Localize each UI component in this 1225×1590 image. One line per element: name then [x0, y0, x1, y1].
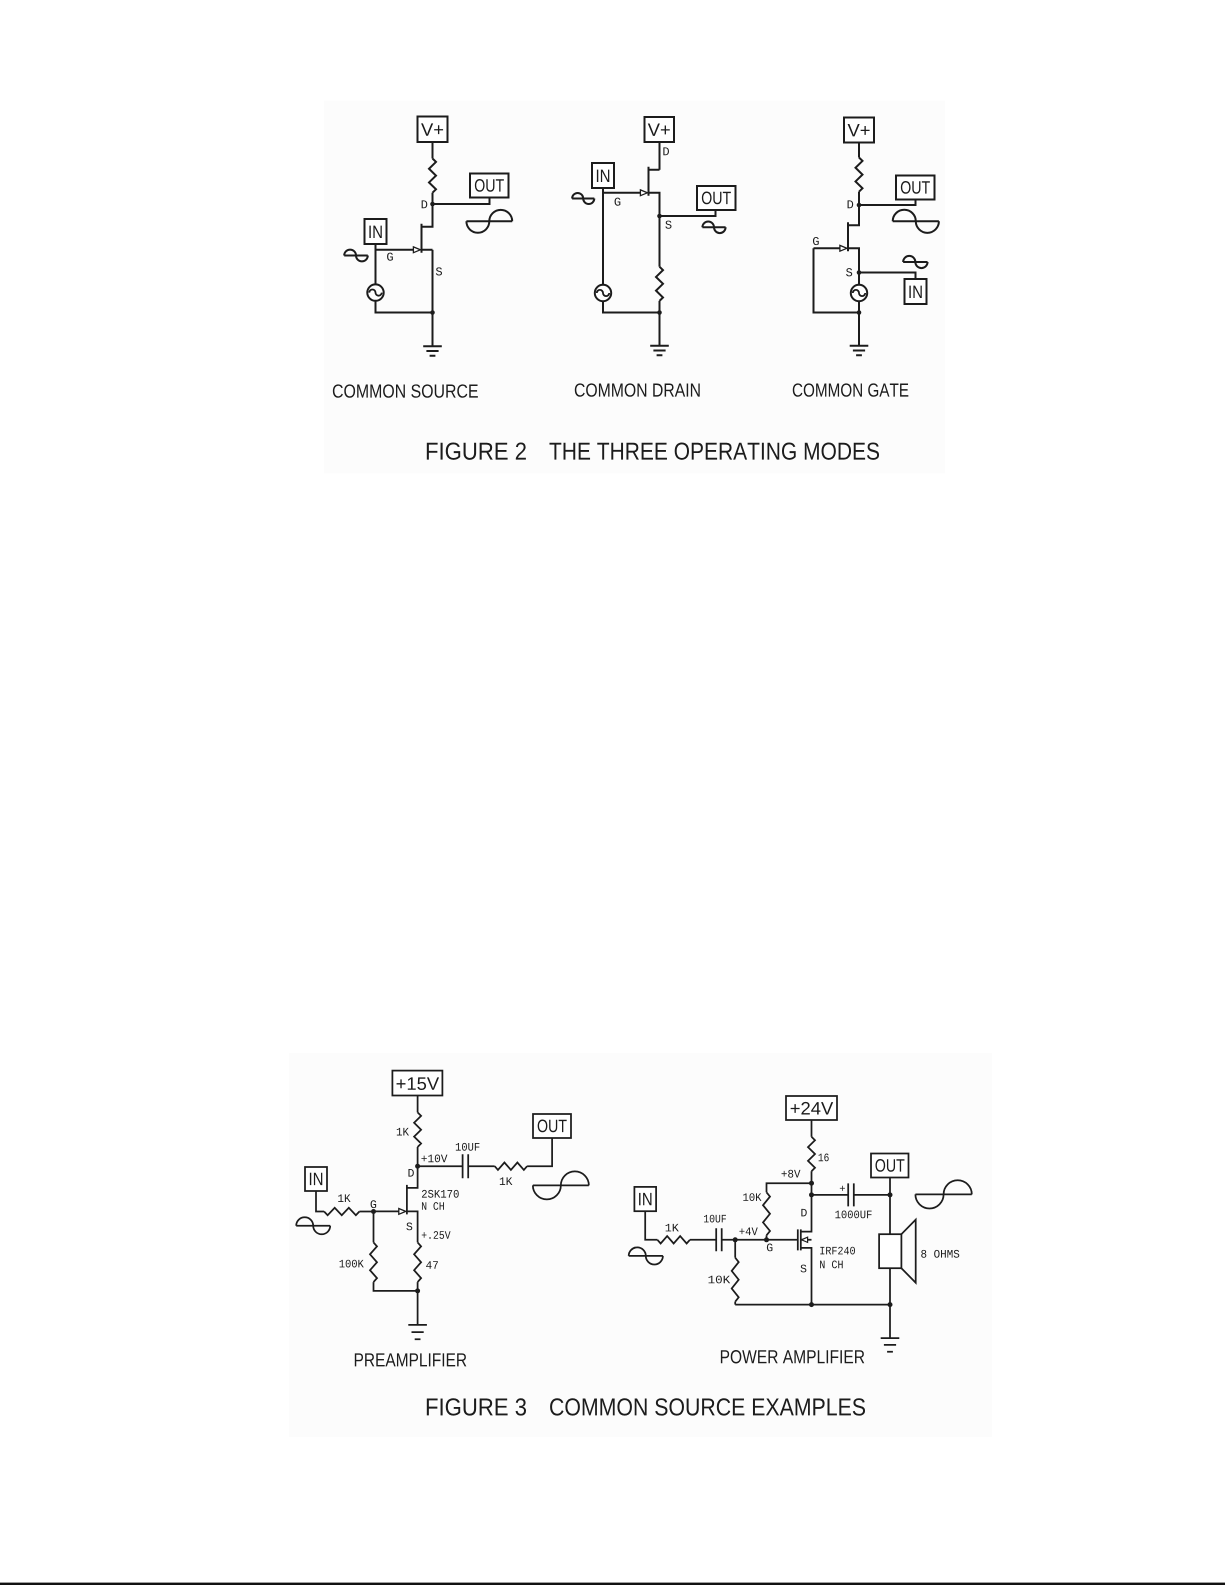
wire generator to ground rail (common gate): [858, 301, 860, 313]
wire junction to ground (common source): [432, 313, 434, 347]
wire junction to ground (preamplifier): [417, 1291, 419, 1325]
part label N CH (preamplifier): [422, 1202, 444, 1210]
value label 100K (preamplifier): [340, 1260, 364, 1268]
output waveform sine (common drain): [702, 222, 725, 234]
output waveform sine (preamplifier, inverted): [533, 1171, 589, 1199]
voltage label +10V (preamplifier): [421, 1155, 447, 1163]
input waveform sine (common gate): [903, 256, 927, 268]
node G junction dot (power amplifier): [764, 1237, 769, 1242]
ground rail junction dot (preamplifier): [415, 1288, 420, 1293]
caption COMMON DRAIN: [575, 383, 700, 396]
pin label D (common gate): [848, 200, 854, 208]
wire resistor to ground rail (common drain): [659, 301, 661, 313]
wire V+ to drain resistor (common gate): [858, 143, 860, 158]
node D junction dot (power amplifier): [809, 1192, 814, 1197]
ground symbol (power amplifier): [881, 1338, 900, 1352]
pin label S (preamplifier): [406, 1223, 412, 1231]
wire node D to capacitor (preamplifier): [418, 1165, 463, 1167]
wire generator to IN (common drain): [602, 188, 604, 285]
wire resistor to node G (preamplifier): [359, 1211, 373, 1213]
input port box IN (common source): [365, 219, 387, 244]
part label IRF240 (power amplifier): [820, 1247, 855, 1255]
caption COMMON SOURCE: [333, 384, 478, 397]
wire 100K to ground rail (preamplifier): [374, 1282, 418, 1291]
wire junction to ground (common drain): [659, 313, 661, 346]
wire IN to resistor 1K (power amplifier): [645, 1211, 657, 1240]
transistor IRF240 N-MOSFET (power amplifier): [767, 1195, 812, 1305]
input waveform sine (power amplifier): [629, 1247, 663, 1264]
wire speaker to ground rail (power amplifier): [889, 1268, 891, 1304]
value label 1000UF (power amplifier): [835, 1211, 871, 1219]
resistor RD (common gate drain resistor): [856, 158, 863, 192]
capacitor 10UF (preamplifier): [463, 1154, 469, 1178]
wire node D to capacitor 1000UF: [812, 1194, 849, 1196]
source junction dot on ground rail (power amplifier): [809, 1302, 814, 1307]
value label 1K drain (preamplifier): [397, 1128, 409, 1136]
transistor 2SK170 N-JFET (preamplifier): [374, 1166, 418, 1242]
wire capacitor to node OUT (power amplifier): [854, 1194, 890, 1196]
ground junction dot (power amplifier): [888, 1302, 893, 1307]
output waveform sine (common gate): [893, 210, 939, 233]
resistor 1K drain (preamplifier): [414, 1112, 421, 1147]
figure 3 panel background: [289, 1053, 992, 1437]
pin label S (common gate): [846, 268, 852, 276]
pin label G (preamplifier): [371, 1200, 377, 1208]
value label 10K lower (power amplifier): [709, 1276, 731, 1284]
wire resistor to node D (common gate): [858, 192, 860, 205]
wire OUT box to node OUT (power amplifier): [889, 1178, 891, 1195]
resistor 1K input (power amplifier): [657, 1236, 690, 1243]
pin label G (common drain): [615, 198, 621, 206]
output port box OUT (common drain): [697, 186, 736, 210]
output port box OUT (power amplifier): [871, 1154, 909, 1178]
wire V+ to drain resistor: [432, 142, 434, 159]
power rail box +24V (power amplifier): [786, 1096, 837, 1120]
value label 8 OHMS (power amplifier): [921, 1250, 959, 1258]
wire IN to resistor 1K input (preamplifier): [316, 1191, 324, 1212]
output waveform sine (power amplifier, inverted): [915, 1180, 971, 1208]
capacitor 1000UF (power amplifier): [848, 1183, 854, 1206]
page footer rule: [0, 1583, 1225, 1585]
wire ground rail to ground (power amplifier): [889, 1305, 891, 1338]
wire node D to OUT: [433, 198, 490, 205]
ground rail junction dot (common drain): [657, 310, 662, 315]
wire node G to resistor 100K (preamplifier): [373, 1212, 375, 1243]
caption COMMON GATE: [793, 383, 909, 396]
pin label S (power amplifier): [800, 1265, 806, 1273]
wire node +4V to resistor 10K lower: [734, 1240, 736, 1258]
wire node OUT to speaker (power amplifier): [889, 1195, 891, 1234]
node D junction dot (common gate): [857, 203, 862, 208]
ground symbol (preamplifier): [408, 1325, 427, 1339]
wire node S to IN (common gate): [859, 273, 916, 280]
wire IN to source generator: [375, 244, 377, 285]
input port box IN (common drain): [592, 163, 614, 188]
value label 10UF (power amplifier): [704, 1215, 726, 1223]
resistor 1K input (preamplifier): [324, 1208, 359, 1215]
transistor Q2 N-JFET (common drain): [603, 167, 660, 216]
wire ground rail to generator (common drain): [603, 301, 660, 313]
ground rail junction dot (common gate): [857, 310, 862, 315]
wire +24V to resistor 16: [811, 1120, 813, 1137]
figure 2 title: [427, 442, 879, 459]
AC signal source V1 (common source): [367, 284, 383, 300]
pin label D (power amplifier): [801, 1209, 806, 1217]
wire resistor 16 to node +8V: [811, 1171, 813, 1183]
wire resistor to node D: [432, 193, 434, 204]
output port box OUT (common gate): [896, 176, 935, 200]
input port box IN (common gate): [905, 279, 927, 304]
input port box IN (preamplifier): [305, 1167, 327, 1191]
power rail box +15V (preamplifier): [392, 1071, 442, 1096]
pin label G (power amplifier): [767, 1244, 773, 1252]
input port box IN (power amplifier): [634, 1187, 656, 1211]
output port box OUT (common source): [470, 174, 509, 198]
pin label G (common source): [387, 253, 393, 261]
resistor RS (common drain source resistor): [656, 267, 663, 301]
wire generator to ground rail (common source): [376, 301, 433, 313]
output port box OUT (preamplifier): [533, 1114, 571, 1138]
wire resistor to OUT (preamplifier): [527, 1138, 552, 1166]
voltage label +8V (power amplifier): [782, 1170, 801, 1178]
value label 1K output (preamplifier): [500, 1177, 513, 1185]
value label 1K input (preamplifier): [338, 1194, 350, 1202]
capacitor 10UF (power amplifier): [716, 1228, 722, 1251]
ground rail junction dot (common source): [430, 310, 435, 315]
resistor RD (common source drain resistor): [429, 159, 436, 193]
input waveform sine (common drain): [572, 193, 594, 204]
transistor Q3 N-JFET (common gate): [814, 205, 860, 273]
node D junction dot (common source): [430, 202, 435, 207]
wire capacitor 10UF to node G (power amplifier): [722, 1239, 767, 1241]
value label 16 (power amplifier): [819, 1154, 829, 1162]
resistor 47 source (preamplifier): [414, 1242, 421, 1282]
AC signal source V2 (common drain): [595, 285, 611, 301]
ground symbol (common drain): [650, 346, 669, 355]
figure 3 title: [427, 1398, 865, 1415]
wire node +8V to node D (power amplifier): [811, 1183, 813, 1195]
node D junction dot (preamplifier): [415, 1164, 420, 1169]
input waveform sine (common source): [344, 250, 368, 262]
wire node S to OUT: [660, 210, 716, 216]
caption POWER AMPLIFIER: [721, 1350, 864, 1363]
output waveform sine (common source, inverted): [466, 210, 512, 233]
AC signal source V3 (common gate): [851, 285, 867, 301]
caption PREAMPLIFIER: [355, 1353, 467, 1366]
node G junction dot (preamplifier): [371, 1209, 376, 1214]
voltage label +4V (power amplifier): [739, 1228, 757, 1236]
node +8V junction dot (power amplifier): [809, 1181, 814, 1186]
part label N CH (power amplifier): [820, 1261, 843, 1269]
pin label D (preamplifier): [408, 1169, 413, 1177]
wire capacitor to resistor 1K out (preamplifier): [468, 1165, 495, 1167]
wire V+ to drain: [659, 142, 661, 170]
value label 10K upper (power amplifier): [743, 1193, 761, 1201]
resistor 100K gate bias (preamplifier): [370, 1242, 377, 1282]
resistor 10K lower bias (power amplifier): [732, 1258, 739, 1302]
transistor Q1 N-JFET (common source): [376, 204, 433, 253]
figure 2 panel background: [324, 101, 945, 474]
pin label D (common drain): [663, 147, 669, 155]
ground rail (power amplifier): [735, 1304, 890, 1306]
wire +8V to resistor 10K upper: [767, 1183, 812, 1192]
wire source to ground rail (common source): [432, 250, 434, 313]
polarity label + (power amplifier): [840, 1186, 845, 1191]
wire resistor 1K to capacitor (power amplifier): [690, 1239, 716, 1241]
ground symbol (common gate): [850, 346, 869, 355]
value label 10UF (preamplifier): [456, 1143, 480, 1151]
pin label D (common source): [422, 200, 428, 208]
node OUT junction dot (power amplifier): [888, 1192, 893, 1197]
power rail box V+ (common gate): [844, 118, 874, 143]
pin label S (common drain): [665, 221, 671, 229]
value label 1K (power amplifier): [666, 1224, 679, 1232]
wire S to generator (common gate): [858, 275, 860, 285]
voltage label +.25V (preamplifier): [422, 1231, 451, 1239]
resistor 16 (power amplifier): [808, 1137, 815, 1171]
wire resistor to node D (preamplifier): [417, 1147, 419, 1166]
resistor 1K output (preamplifier): [495, 1163, 527, 1170]
power rail box V+ (common source): [418, 117, 448, 143]
pin label S (common source): [436, 267, 442, 275]
node S junction dot (common drain): [657, 214, 662, 219]
wire 47 to ground rail (preamplifier): [417, 1282, 419, 1291]
wire resistor 10K to node G (power amplifier): [766, 1235, 768, 1240]
pin label G (common gate): [813, 237, 819, 245]
node +4V junction dot (power amplifier): [733, 1237, 738, 1242]
node S junction dot (common gate): [857, 270, 862, 275]
part label 2SK170 (preamplifier): [422, 1190, 459, 1198]
wire 10K lower to ground rail (power amplifier): [734, 1302, 736, 1305]
wire S to source resistor: [659, 216, 661, 267]
resistor 10K upper bias (power amplifier): [763, 1192, 770, 1235]
input waveform sine (preamplifier): [296, 1217, 330, 1234]
ground symbol (common source): [423, 346, 442, 355]
gate return wire (common gate): [814, 248, 860, 312]
power rail box V+ (common drain): [645, 117, 675, 142]
value label 47 (preamplifier): [426, 1261, 438, 1269]
wire junction to ground (common gate): [858, 313, 860, 346]
wire +15V to resistor 1K: [417, 1096, 419, 1113]
speaker LS1 (power amplifier): [879, 1220, 916, 1283]
wire node D to OUT (common gate): [859, 200, 916, 206]
